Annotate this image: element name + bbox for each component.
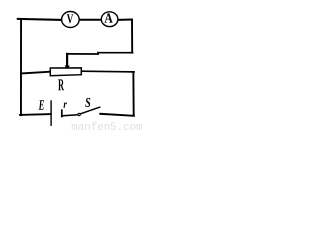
resistor R body (rheostat box) bbox=[50, 68, 81, 76]
voltmeter label V bbox=[67, 14, 73, 23]
wire rheostat row left bbox=[21, 72, 49, 74]
ammeter label A bbox=[104, 13, 112, 22]
wire battery to switch pivot bbox=[63, 115, 78, 116]
resistor value label R bbox=[58, 79, 64, 90]
battery label E bbox=[39, 100, 44, 110]
wire bottom-right (switch contact to right corner) bbox=[100, 114, 134, 116]
wire slider horizontal right part bbox=[98, 52, 133, 54]
switch label S bbox=[85, 98, 90, 107]
internal resistance label r bbox=[64, 103, 68, 108]
switch S pivot circle bbox=[78, 113, 80, 115]
switch S blade bbox=[80, 107, 100, 114]
wire rheostat row right bbox=[82, 70, 134, 73]
battery E short plate bbox=[61, 109, 63, 117]
wire between voltmeter and ammeter bbox=[79, 19, 101, 21]
slider arrowhead pointing onto rheostat bbox=[65, 66, 70, 71]
ammeter circle bbox=[101, 12, 118, 27]
wire bottom-left (corner to battery) bbox=[20, 113, 51, 116]
wire slider step joint bbox=[97, 53, 99, 54]
voltmeter circle bbox=[62, 12, 80, 28]
battery E long plate bbox=[50, 100, 52, 126]
wire right vertical upper (corner to slider wire) bbox=[131, 20, 133, 53]
wire slider horizontal left part bbox=[67, 53, 98, 55]
wire top-left (battery loop to voltmeter) bbox=[18, 19, 62, 20]
wire right vertical lower bbox=[132, 72, 134, 116]
wire slider vertical stub bbox=[66, 54, 68, 66]
wire left vertical bbox=[20, 19, 22, 115]
wire ammeter to top-right corner bbox=[118, 19, 132, 21]
svg-text:manfen5.com: manfen5.com bbox=[71, 122, 142, 131]
